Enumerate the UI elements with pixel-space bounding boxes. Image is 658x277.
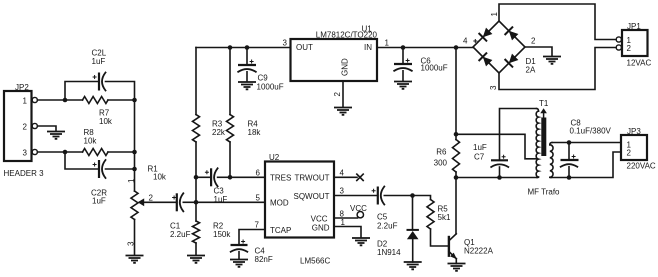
connector JP3 [621,127,656,171]
resistor R4 [227,48,262,178]
wire JP2 pin1 to node [37,99,65,101]
ground at bridge [543,57,561,64]
svg-text:VCC: VCC [350,204,367,213]
svg-text:82nF: 82nF [255,255,273,264]
svg-text:2: 2 [627,44,632,53]
ground under U2 [352,238,370,245]
svg-text:7: 7 [255,221,260,230]
svg-text:1uF: 1uF [92,57,106,66]
junction C3 right [228,175,233,180]
svg-text:JP3: JP3 [627,127,641,136]
connector JP2 [4,83,45,178]
junction right bus mid [132,150,137,155]
capacitor C5 [334,187,413,231]
svg-text:1: 1 [490,12,499,17]
resistor R5 [413,196,451,247]
wire right bus [134,100,136,152]
resistor R7 [65,97,135,127]
transistor Q1 [449,178,494,264]
wire TCAP to C4 [239,230,265,245]
wire secondary top rail [552,142,621,144]
junction R6 bottom [454,175,459,180]
resistor R2 [193,202,232,255]
svg-text:N2222A: N2222A [464,247,494,256]
wire U1 pin2 to ground [342,81,344,107]
svg-text:GND: GND [312,224,330,233]
svg-text:5k1: 5k1 [438,213,451,222]
svg-text:3: 3 [127,241,136,246]
wire VCC rail from U1 OUT [196,47,291,49]
svg-text:300: 300 [434,159,448,168]
bridge rectifier D1 [463,12,536,91]
svg-text:0.1uF/380V: 0.1uF/380V [570,127,612,136]
resistor R3 [193,48,226,178]
svg-text:10k: 10k [84,137,98,146]
junction right bus top [132,98,137,103]
svg-text:GND: GND [341,58,350,76]
ground under C9 [238,82,256,89]
svg-text:4: 4 [463,37,468,46]
svg-text:TRES: TRES [270,173,291,182]
svg-text:1N914: 1N914 [377,248,401,257]
svg-text:3: 3 [23,149,28,158]
VCC symbol [350,204,367,218]
svg-text:2: 2 [627,149,632,158]
junction C5/D2/R5 [410,193,415,198]
svg-text:C5: C5 [377,213,388,222]
diode D2 [377,196,419,263]
svg-text:4: 4 [340,168,345,177]
svg-text:3: 3 [283,38,288,47]
wire right bus to pot [134,152,136,191]
capacitor C1 [170,193,196,239]
wire JP2 pin2 to ground [37,126,56,131]
svg-text:JP1: JP1 [627,22,641,31]
wire bridge top to JP1 pin1 [499,4,616,40]
junction R6 branch top [454,45,459,50]
svg-text:1: 1 [23,97,28,106]
junction node left bus top [63,98,68,103]
IC U2 [265,153,334,266]
ground under R2 [187,256,205,263]
wire bridge bottom to JP1 pin2 [499,48,616,90]
junction C8 bottom [567,175,572,180]
junction node left bus bottom [63,150,68,155]
svg-text:1uF: 1uF [473,143,487,152]
svg-text:1000uF: 1000uF [257,83,284,92]
svg-text:R6: R6 [436,148,447,157]
svg-text:SQWOUT: SQWOUT [294,192,330,201]
svg-text:2: 2 [23,123,28,132]
ground under D2 [404,262,422,269]
svg-text:10k: 10k [153,173,167,182]
svg-text:2: 2 [149,194,154,203]
svg-text:TRWOUT: TRWOUT [295,173,330,182]
wire VCC pin8 [334,217,358,219]
svg-text:150k: 150k [213,230,231,239]
resistor R6 [434,140,460,178]
svg-text:OUT: OUT [296,43,313,52]
svg-text:2A: 2A [526,66,536,75]
wire MOD line [196,201,265,203]
svg-text:5: 5 [256,193,261,202]
transformer T1 [528,99,561,197]
svg-text:T1: T1 [539,99,549,108]
svg-text:2: 2 [531,37,536,46]
svg-text:3: 3 [489,85,498,90]
svg-text:VCC: VCC [311,214,328,223]
junction C6 [401,45,406,50]
junction node C1/MOD [194,200,199,205]
svg-text:2.2uF: 2.2uF [170,230,191,239]
svg-text:1: 1 [127,178,136,183]
svg-text:LM566C: LM566C [300,257,330,266]
svg-text:TCAP: TCAP [270,226,291,235]
svg-text:U2: U2 [269,153,280,162]
junction C8 top [567,140,572,145]
svg-text:3: 3 [340,187,345,196]
svg-text:2: 2 [333,92,342,97]
wire bottom rail primary [456,177,537,179]
wire node to C3 row [195,177,197,202]
capacitor C7 [473,143,508,178]
junction VCC rail R4 [228,45,233,50]
wire secondary bottom to JP3 pin2 [551,152,621,178]
capacitor C4 [231,240,273,265]
voltage regulator U1 [291,25,378,82]
svg-text:MF Trafo: MF Trafo [528,188,561,197]
svg-text:1000uF: 1000uF [421,64,448,73]
ground under U1 [334,108,352,115]
wire U1 IN to bridge [377,47,473,49]
ground under C6 [394,82,412,89]
junction C7 bottom [497,175,502,180]
wire bridge pin2 to ground [525,47,552,56]
svg-text:10k: 10k [99,117,113,126]
svg-text:LM7812C/TO220: LM7812C/TO220 [316,31,378,40]
wire R6 branch [455,48,457,140]
capacitor C8 [561,119,612,178]
junction right bus at C2R [132,167,137,172]
capacitor C3 [196,168,230,204]
ground under Q1 [448,264,466,271]
wire tap to transformer primary [456,134,537,159]
capacitor C2R [65,152,135,206]
ground under R1 [126,256,144,263]
ground under C4 [230,260,248,267]
svg-text:22k: 22k [212,128,226,137]
svg-text:C9: C9 [258,74,269,83]
capacitor C9 [238,48,284,92]
potentiometer R1 [127,165,177,256]
svg-text:18k: 18k [248,128,262,137]
svg-text:IN: IN [364,43,372,52]
svg-text:6: 6 [256,168,261,177]
capacitor C2L [65,49,135,101]
wire TRES [230,176,265,178]
svg-text:1: 1 [341,218,346,227]
junction C3 left [194,175,199,180]
svg-text:220VAC: 220VAC [627,162,656,171]
svg-text:MOD: MOD [270,198,289,207]
svg-text:2.2uF: 2.2uF [377,222,398,231]
ground [47,132,65,139]
svg-text:JP2: JP2 [15,83,29,92]
svg-text:12VAC: 12VAC [627,59,652,68]
wire TRWOUT pin4 [334,176,357,178]
resistor R8 [65,128,135,156]
capacitor C6 [394,48,448,82]
wire JP2 pin3 to node [37,151,65,153]
svg-text:1: 1 [385,38,390,47]
svg-text:C7: C7 [474,152,485,161]
wire GND pin1 [334,227,361,238]
svg-text:HEADER 3: HEADER 3 [4,169,45,178]
svg-text:1uF: 1uF [92,197,106,206]
wire primary top to C7 [500,109,537,161]
connector JP1 [616,22,651,68]
svg-text:1uF: 1uF [214,195,228,204]
no-connect X pin4 [357,174,363,180]
junction VCC rail C9 [245,45,250,50]
junction R6 top [454,132,459,137]
